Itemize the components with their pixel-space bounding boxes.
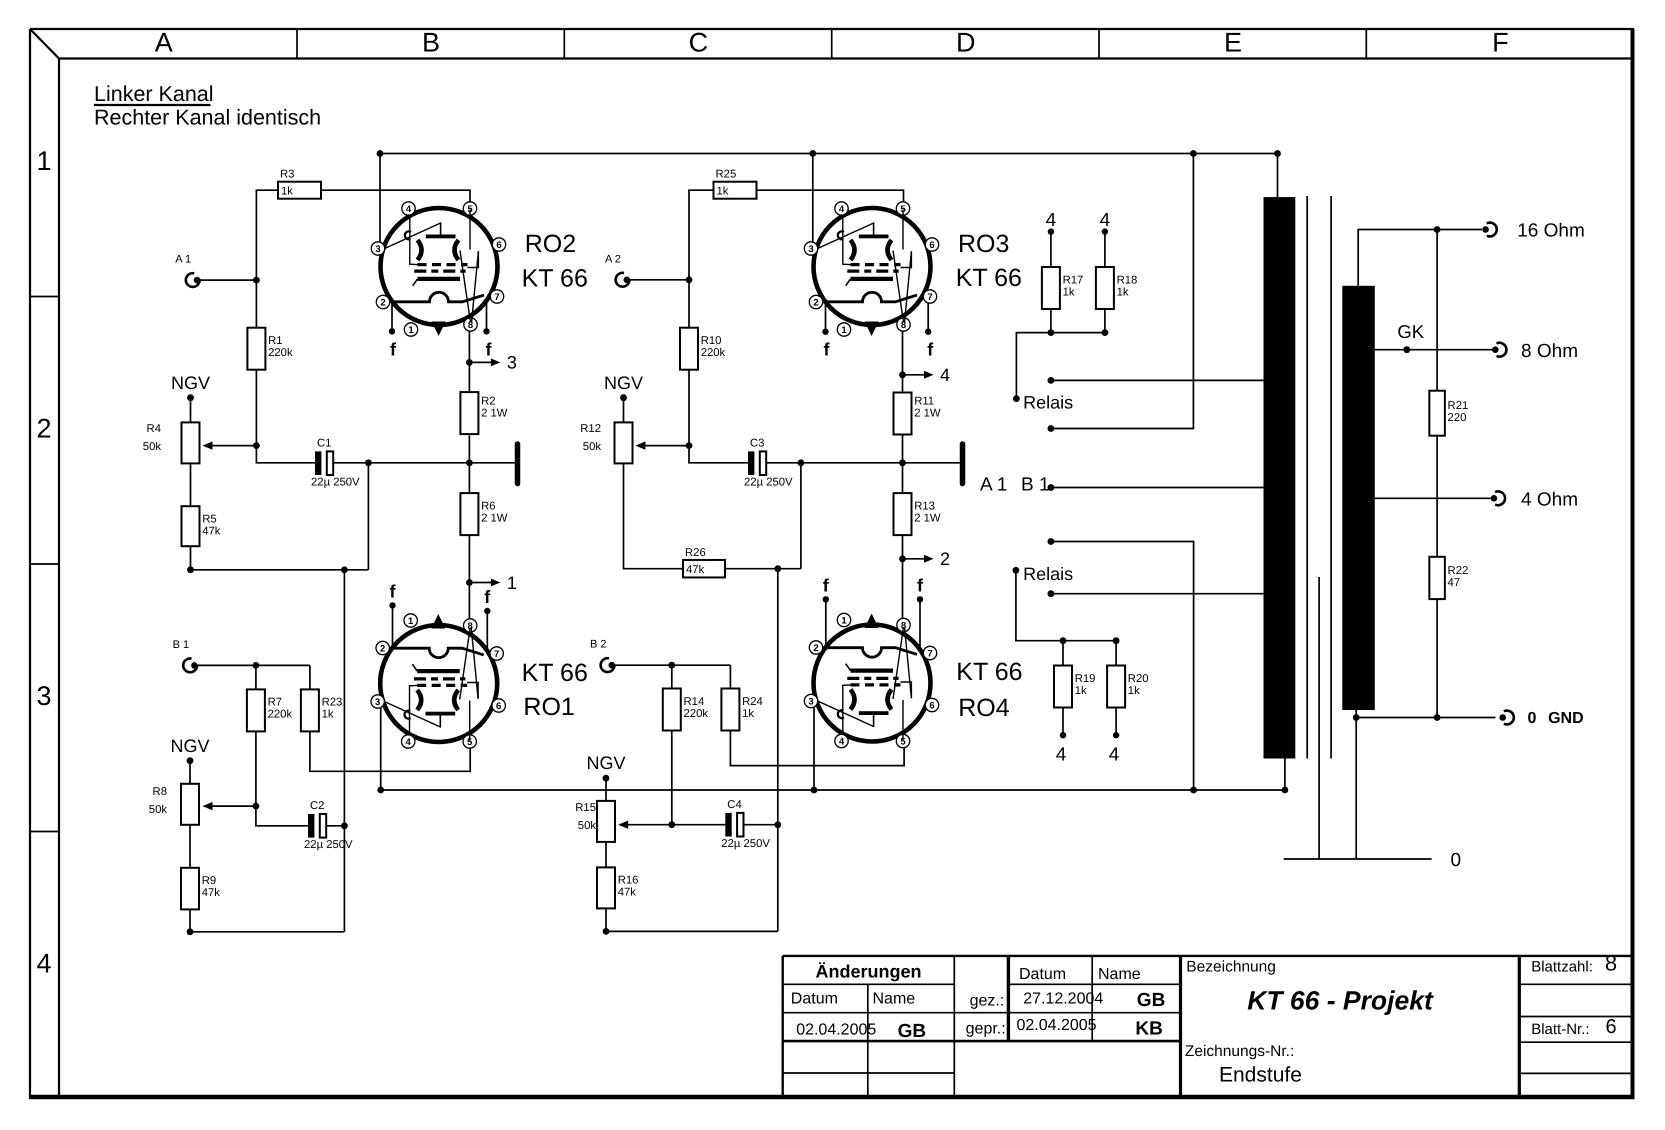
svg-text:220k: 220k xyxy=(268,709,293,721)
wire C4 to R26 branch xyxy=(744,824,778,826)
svg-text:220k: 220k xyxy=(268,347,293,359)
svg-text:4: 4 xyxy=(940,365,950,385)
svg-text:50k: 50k xyxy=(143,441,162,453)
svg-text:4: 4 xyxy=(839,737,845,748)
node 1 tap arrow xyxy=(466,573,517,593)
wire R25 left leg xyxy=(689,190,714,328)
wiper arrow to R15 xyxy=(627,824,672,826)
svg-text:B 1: B 1 xyxy=(1021,475,1050,496)
resistor R10 xyxy=(680,328,726,446)
svg-text:R13: R13 xyxy=(914,500,935,512)
svg-text:R6: R6 xyxy=(481,500,495,512)
wire R24 top lead xyxy=(729,665,731,688)
svg-text:NGV: NGV xyxy=(171,373,210,393)
label NGV net 1 xyxy=(171,373,210,401)
svg-text:6: 6 xyxy=(496,701,501,712)
tube RO3 (KT 66) xyxy=(804,202,1022,360)
svg-text:KB: KB xyxy=(1135,1019,1162,1040)
svg-text:B: B xyxy=(422,28,440,58)
resistor R25 xyxy=(714,169,757,199)
resistor R24 xyxy=(721,689,762,731)
svg-text:R24: R24 xyxy=(742,696,763,708)
node 16 Ohm / R21 chain xyxy=(1434,226,1441,233)
svg-text:6: 6 xyxy=(496,240,501,251)
potentiometer R4 xyxy=(143,422,200,463)
svg-text:Zeichnungs-Nr.:: Zeichnungs-Nr.: xyxy=(1185,1043,1294,1060)
svg-text:Blattzahl:: Blattzahl: xyxy=(1531,959,1593,976)
connector bar B (right) xyxy=(960,444,966,484)
svg-text:47k: 47k xyxy=(202,887,221,899)
terminal B1 xyxy=(173,639,198,672)
resistor R9 xyxy=(181,868,220,910)
wire R25 to RO3 grid pin 5 xyxy=(757,190,904,208)
svg-text:1k: 1k xyxy=(1063,286,1075,298)
svg-text:4: 4 xyxy=(406,737,412,748)
svg-text:R22: R22 xyxy=(1448,565,1469,577)
wire secondary top to 16 Ohm xyxy=(1358,230,1482,286)
svg-text:Relais: Relais xyxy=(1023,564,1073,584)
svg-text:7: 7 xyxy=(494,292,499,303)
svg-text:Blatt-Nr.:: Blatt-Nr.: xyxy=(1531,1021,1589,1038)
svg-text:50k: 50k xyxy=(149,804,168,816)
svg-text:1k: 1k xyxy=(1128,685,1140,697)
svg-text:A 2: A 2 xyxy=(605,253,621,265)
relay 1 xyxy=(1013,377,1073,432)
node bus / primary bottom xyxy=(1282,787,1289,794)
wire R13 bottom to node 2 xyxy=(902,535,904,559)
wire R16 bottom return xyxy=(606,908,778,931)
svg-text:1k: 1k xyxy=(1075,685,1087,697)
wire 8 Ohm tap xyxy=(1375,349,1492,351)
node B1 / R7 xyxy=(253,662,260,669)
wire C3 feedback branch xyxy=(800,463,802,569)
node R20 top xyxy=(1113,637,1120,644)
svg-text:B 2: B 2 xyxy=(590,639,607,651)
title block texts xyxy=(791,951,1617,1087)
node 2 tap arrow xyxy=(899,549,950,569)
svg-text:2: 2 xyxy=(813,298,818,309)
svg-text:A: A xyxy=(155,28,173,58)
node 0 GND / R22 chain xyxy=(1434,714,1441,721)
title block xyxy=(783,956,1634,1099)
resistor R20 bottom terminal 4 xyxy=(1109,732,1120,766)
resistor R23 xyxy=(301,689,342,731)
node NGV branch to C2 xyxy=(341,566,348,573)
svg-text:47: 47 xyxy=(1448,577,1461,589)
svg-text:8 Ohm: 8 Ohm xyxy=(1521,341,1578,362)
wire primary bottom lead xyxy=(1284,759,1286,791)
svg-text:1: 1 xyxy=(507,573,517,593)
transformer core xyxy=(1307,196,1331,759)
svg-text:4 Ohm: 4 Ohm xyxy=(1521,490,1578,511)
wire R3 left leg xyxy=(256,190,278,328)
svg-text:RO4: RO4 xyxy=(958,694,1010,722)
svg-text:Rechter Kanal identisch: Rechter Kanal identisch xyxy=(94,106,321,130)
svg-text:R19: R19 xyxy=(1075,673,1096,685)
svg-text:C1: C1 xyxy=(317,437,331,449)
resistor R17 top terminal 4 xyxy=(1046,210,1057,235)
resistor R16 xyxy=(597,867,638,908)
svg-text:Endstufe: Endstufe xyxy=(1219,1064,1302,1087)
svg-text:50k: 50k xyxy=(583,441,602,453)
svg-text:7: 7 xyxy=(927,649,932,660)
terminal T16 xyxy=(1482,221,1584,242)
tube RO1 (KT 66) xyxy=(371,581,588,748)
node top bus / RO2 anode xyxy=(377,150,384,157)
label NGV net 2 xyxy=(604,373,643,401)
node R16 bottom corner xyxy=(603,928,610,935)
svg-text:RO3: RO3 xyxy=(958,230,1009,258)
wire secondary bottom to 0 GND xyxy=(1356,710,1495,718)
svg-text:22µ 250V: 22µ 250V xyxy=(304,839,353,851)
svg-text:47k: 47k xyxy=(618,887,637,899)
tube RO2 (KT 66) xyxy=(371,202,588,359)
wire R6 bottom to node 1 xyxy=(468,535,470,582)
resistor R18 top terminal 4 xyxy=(1100,210,1111,235)
svg-text:f: f xyxy=(390,339,397,359)
wire RO3 anode feed xyxy=(812,154,814,245)
svg-text:E: E xyxy=(1224,28,1242,58)
svg-text:GB: GB xyxy=(898,1021,927,1042)
wire R5 bottom to C1 node xyxy=(191,546,369,570)
node R14 / R15 wiper / C4 xyxy=(668,821,675,828)
svg-text:Datum: Datum xyxy=(791,991,838,1008)
wire RO2 anode feed xyxy=(379,154,381,247)
svg-text:KT 66: KT 66 xyxy=(956,264,1022,292)
svg-text:NGV: NGV xyxy=(170,736,209,756)
wire 4 Ohm tap xyxy=(1375,497,1491,499)
resistor R19 xyxy=(1054,641,1095,736)
svg-text:2 1W: 2 1W xyxy=(481,512,508,524)
capacitor C2 xyxy=(304,800,353,851)
resistor R21 xyxy=(1429,391,1468,436)
svg-text:R10: R10 xyxy=(701,335,722,347)
tube RO4 (KT 66) xyxy=(804,575,1022,747)
wire R23 to RO1 grid pin 5 xyxy=(310,732,470,772)
node R9 bottom corner xyxy=(187,928,194,935)
resistor R22 xyxy=(1429,557,1468,599)
svg-text:R25: R25 xyxy=(716,169,737,181)
svg-text:02.04.2005: 02.04.2005 xyxy=(796,1022,876,1039)
connector bar A (left) xyxy=(515,444,521,484)
svg-text:2: 2 xyxy=(940,549,950,569)
label NGV net 4 xyxy=(586,753,625,782)
node C4 / R26 branch xyxy=(774,821,781,828)
svg-text:1: 1 xyxy=(408,616,414,627)
svg-text:Bezeichnung: Bezeichnung xyxy=(1186,959,1276,976)
svg-text:f: f xyxy=(484,587,491,607)
svg-text:KT 66: KT 66 xyxy=(956,658,1022,686)
node R2 / R6 cathode junction xyxy=(466,459,473,466)
svg-text:KT 66 - Projekt: KT 66 - Projekt xyxy=(1247,986,1434,1016)
node bus / RO1 anode xyxy=(377,787,384,794)
svg-text:F: F xyxy=(1492,28,1509,58)
node R17 bottom xyxy=(1048,329,1055,336)
wire R15 to R16 xyxy=(605,842,607,868)
wiper arrow to R8 xyxy=(212,805,256,807)
svg-text:f: f xyxy=(823,575,830,595)
wire B1 to grid divider xyxy=(198,664,310,666)
node top bus / transformer primary xyxy=(1274,150,1281,157)
node C3 / feedback branch xyxy=(798,459,805,466)
resistor R1 xyxy=(247,328,293,446)
svg-text:Name: Name xyxy=(1098,966,1141,983)
wire A1 to grid divider xyxy=(200,279,256,281)
terminal T8 xyxy=(1492,341,1578,362)
svg-text:C: C xyxy=(689,28,709,58)
svg-text:1k: 1k xyxy=(1117,286,1129,298)
title note xyxy=(94,82,321,130)
resistor R18 xyxy=(1096,232,1137,333)
node R7 / R8 wiper xyxy=(253,803,260,810)
svg-text:6: 6 xyxy=(929,701,934,712)
wire feedback branch down xyxy=(367,463,369,570)
svg-text:1: 1 xyxy=(841,325,847,336)
svg-text:7: 7 xyxy=(494,649,499,660)
svg-text:R8: R8 xyxy=(153,786,167,798)
svg-text:7: 7 xyxy=(927,292,932,303)
svg-text:R18: R18 xyxy=(1117,274,1138,286)
wire primary top lead xyxy=(1277,154,1279,198)
svg-text:220k: 220k xyxy=(701,347,726,359)
svg-text:NGV: NGV xyxy=(604,373,643,393)
wire secondary to ground bar xyxy=(1355,718,1357,860)
node R26 / C4 branch xyxy=(774,565,781,572)
wire bottom anode bus xyxy=(381,789,1285,791)
svg-text:R20: R20 xyxy=(1128,673,1149,685)
resistor R11 xyxy=(894,375,941,435)
transformer shield to ground xyxy=(1318,577,1320,859)
wire NGV2 to R12 xyxy=(623,398,625,423)
wire R22 to 0 GND line xyxy=(1436,599,1438,717)
svg-text:6: 6 xyxy=(929,240,934,251)
svg-text:3: 3 xyxy=(375,697,380,708)
resistor R7 xyxy=(247,689,293,731)
node bus / relay 2 xyxy=(1190,787,1197,794)
wire RO3 cathode pin 8 to node 4 xyxy=(902,326,904,375)
resistor R3 xyxy=(278,169,321,199)
wire R26 to C3 node xyxy=(725,568,801,570)
svg-text:2: 2 xyxy=(36,414,51,444)
terminal A1 xyxy=(175,254,200,287)
resistor R26 xyxy=(683,547,725,578)
svg-text:1k: 1k xyxy=(322,709,334,721)
svg-text:R17: R17 xyxy=(1063,274,1084,286)
wire R12 bottom to R26 xyxy=(624,463,684,568)
node C2 / NGV branch xyxy=(341,822,348,829)
potentiometer R12 xyxy=(580,422,632,463)
node A1 / R1 / R3 xyxy=(253,277,260,284)
wire bus to RO1 anode pin 3 xyxy=(380,707,382,790)
wiper arrow to R4 xyxy=(212,445,257,447)
svg-text:R21: R21 xyxy=(1448,400,1469,412)
wire NGV1 to R4 xyxy=(190,398,192,423)
wire R26 branch vertical xyxy=(777,569,779,932)
svg-text:3: 3 xyxy=(808,244,813,255)
svg-text:47k: 47k xyxy=(686,564,705,576)
resistor R5 xyxy=(182,506,221,546)
svg-text:2: 2 xyxy=(380,644,385,655)
resistor R14 xyxy=(663,689,709,731)
wire node 2 to RO4 pin 8 xyxy=(902,559,904,626)
svg-text:R9: R9 xyxy=(202,875,216,887)
wire R7 to C2 xyxy=(256,806,308,826)
wire R23 top lead xyxy=(309,665,311,689)
svg-text:RO1: RO1 xyxy=(523,693,574,721)
svg-text:A 1: A 1 xyxy=(980,475,1007,496)
potentiometer R15 xyxy=(575,801,615,842)
svg-text:Linker Kanal: Linker Kanal xyxy=(94,82,214,106)
wire RO2 cathode pin 8 to node 3 xyxy=(468,324,470,362)
svg-text:R5: R5 xyxy=(202,514,216,526)
svg-text:02.04.2005: 02.04.2005 xyxy=(1017,1017,1097,1034)
wire B1 tap to primary xyxy=(1048,484,1264,491)
wire NGV branch vertical xyxy=(343,570,345,932)
svg-text:0: 0 xyxy=(1528,710,1537,727)
svg-text:3: 3 xyxy=(808,697,813,708)
terminal A2 xyxy=(605,253,630,286)
wiper arrow to R12 xyxy=(644,445,689,447)
wire C3 to cathode node xyxy=(766,462,960,464)
svg-text:4: 4 xyxy=(1056,745,1067,766)
svg-text:1: 1 xyxy=(841,616,847,627)
svg-text:R23: R23 xyxy=(322,697,343,709)
capacitor C3 xyxy=(744,437,793,488)
svg-text:f: f xyxy=(390,581,397,601)
wire relay 2 common to R19/R20 xyxy=(1016,570,1116,640)
node 4 tap arrow xyxy=(899,365,950,385)
wire R9 bottom return xyxy=(190,909,344,931)
svg-text:R14: R14 xyxy=(684,696,705,708)
svg-text:R12: R12 xyxy=(580,423,601,435)
svg-text:3: 3 xyxy=(36,681,51,711)
svg-text:22µ 250V: 22µ 250V xyxy=(311,477,360,489)
svg-text:f: f xyxy=(917,575,924,595)
svg-text:16 Ohm: 16 Ohm xyxy=(1517,221,1585,242)
svg-text:R11: R11 xyxy=(914,396,934,408)
potentiometer R8 xyxy=(149,784,199,825)
wire R1 bottom to C1 xyxy=(256,446,315,463)
wire top anode bus xyxy=(380,153,1278,155)
svg-text:6: 6 xyxy=(1605,1016,1616,1038)
svg-text:Änderungen: Änderungen xyxy=(816,962,922,982)
svg-text:4: 4 xyxy=(406,204,412,215)
svg-text:gez.:: gez.: xyxy=(970,993,1005,1010)
wire R3 to RO2 grid pin 5 xyxy=(321,190,470,208)
svg-text:NGV: NGV xyxy=(586,753,625,773)
svg-text:f: f xyxy=(486,339,493,359)
svg-text:D: D xyxy=(956,28,976,58)
svg-text:GND: GND xyxy=(1548,710,1584,727)
wire R7 top lead xyxy=(255,665,257,689)
wire R17/R18 common to relay 1 xyxy=(1016,333,1105,399)
node bus / RO4 anode xyxy=(811,787,818,794)
svg-text:R15: R15 xyxy=(575,802,596,814)
wire R8 to R9 xyxy=(189,825,191,868)
svg-text:1: 1 xyxy=(408,325,414,336)
svg-text:2: 2 xyxy=(813,643,818,654)
transformer secondary winding xyxy=(1342,286,1375,710)
svg-text:B 1: B 1 xyxy=(173,639,190,651)
resistor R19 bottom terminal 4 xyxy=(1056,732,1067,766)
wire R14 to C4 xyxy=(672,824,726,826)
svg-text:R16: R16 xyxy=(618,875,639,887)
wire NGV4 to R15 xyxy=(605,778,607,801)
resistor R2 xyxy=(460,362,507,434)
wire A2 to grid divider xyxy=(630,279,689,281)
resistor R6 xyxy=(460,436,507,536)
svg-text:50k: 50k xyxy=(578,820,597,832)
terminal T0 xyxy=(1499,711,1513,725)
svg-text:A 1: A 1 xyxy=(175,254,191,266)
resistor R20 xyxy=(1107,641,1148,736)
svg-text:R7: R7 xyxy=(268,697,282,709)
wire C2 to NGV branch xyxy=(326,825,344,827)
svg-text:3: 3 xyxy=(507,353,517,373)
node R5 bottom corner xyxy=(187,566,194,573)
wire R10 bottom to C3 xyxy=(689,446,748,463)
svg-text:gepr.:: gepr.: xyxy=(966,1021,1006,1038)
svg-text:f: f xyxy=(927,340,934,360)
node R1 / R4 wiper xyxy=(253,442,260,449)
resistor R13 xyxy=(894,435,941,535)
svg-text:RO2: RO2 xyxy=(525,230,576,258)
svg-text:3: 3 xyxy=(375,244,380,255)
svg-text:4: 4 xyxy=(1100,210,1111,231)
relay 2 xyxy=(1013,538,1074,597)
svg-text:220: 220 xyxy=(1448,412,1467,424)
node secondary bottom xyxy=(1353,714,1360,721)
svg-text:R2: R2 xyxy=(481,396,495,408)
wire relay 2 contact to bottom bus xyxy=(1051,542,1194,791)
svg-text:Datum: Datum xyxy=(1019,966,1066,983)
ground bar 0 xyxy=(1284,850,1461,871)
svg-text:0: 0 xyxy=(1451,850,1462,871)
node C1 / feedback branch xyxy=(365,459,372,466)
svg-text:R3: R3 xyxy=(280,169,294,181)
svg-text:KT 66: KT 66 xyxy=(522,265,588,293)
svg-text:1: 1 xyxy=(36,146,51,176)
svg-text:4: 4 xyxy=(1046,210,1057,231)
node top bus / relay 1 xyxy=(1190,150,1197,157)
svg-text:2 1W: 2 1W xyxy=(914,408,941,420)
terminal T4 xyxy=(1491,490,1578,511)
svg-text:KT 66: KT 66 xyxy=(522,659,588,687)
node top bus / RO3 anode xyxy=(809,150,816,157)
wire node 1 to RO1 pin 8 xyxy=(468,583,470,621)
svg-text:R1: R1 xyxy=(268,335,282,347)
svg-text:2 1W: 2 1W xyxy=(481,408,508,420)
svg-text:C3: C3 xyxy=(750,437,764,449)
svg-text:1k: 1k xyxy=(717,186,729,198)
wire B2 to grid divider xyxy=(615,664,730,666)
label NGV net 3 xyxy=(170,736,209,764)
svg-text:2 1W: 2 1W xyxy=(914,512,941,524)
svg-text:GB: GB xyxy=(1137,990,1166,1011)
node 3 tap arrow xyxy=(466,353,517,373)
wire R7 bottom xyxy=(255,732,257,806)
wire relay 2 contact to primary tap xyxy=(1051,593,1264,595)
svg-text:R4: R4 xyxy=(147,423,161,435)
node B2 / R14 xyxy=(668,662,675,669)
wire R24 to RO4 grid pin 5 xyxy=(730,731,904,766)
wire relay 1 to top bus xyxy=(1051,154,1193,429)
capacitor C1 xyxy=(311,437,360,488)
wire R21 to R22 xyxy=(1436,436,1438,557)
node R18 bottom xyxy=(1102,329,1109,336)
svg-text:4: 4 xyxy=(1109,745,1120,766)
svg-text:22µ 250V: 22µ 250V xyxy=(744,477,793,489)
